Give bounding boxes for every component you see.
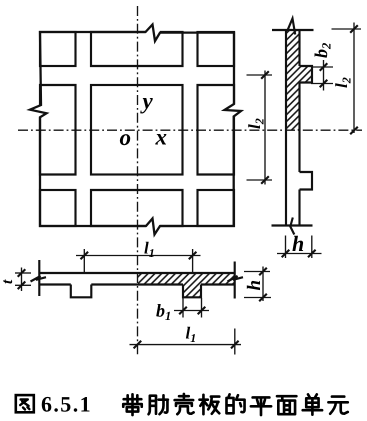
dimension l1 top of bottom section [76, 249, 201, 273]
wire horizontal centerline [18, 129, 362, 131]
break right end [228, 276, 244, 282]
dimension t left [15, 268, 31, 292]
glyph 单 [303, 394, 322, 414]
svg-text:y: y [140, 89, 154, 114]
panel MR [198, 85, 235, 175]
rib notch left (bottom section) [71, 285, 92, 298]
dimension b2 [311, 60, 333, 91]
break top of right section [287, 19, 295, 35]
section right strip left edge [285, 30, 287, 226]
panel TL [40, 32, 76, 66]
section right top edge [272, 29, 314, 31]
dimension h right of bottom section [244, 267, 271, 302]
glyph 带 [123, 394, 141, 415]
glyph 面 [277, 396, 296, 414]
glyph 平 [251, 397, 271, 415]
svg-text:h: h [244, 280, 265, 291]
bottom section top edge [39, 272, 234, 274]
wire vertical centerline [137, 6, 139, 355]
rib notch upper [300, 66, 313, 83]
glyph 的 [227, 394, 245, 413]
dimension l1 bottom [130, 329, 242, 355]
bottom section left end line [38, 260, 40, 296]
dimension h below right section [277, 236, 322, 259]
bottom section bottom edge segments [39, 283, 234, 285]
dimension l2 plan right [247, 71, 273, 185]
panel BL [40, 190, 76, 226]
panel ML [40, 85, 76, 175]
plan outer border with break symbols [30, 25, 241, 235]
bottom section right end line [234, 262, 236, 299]
panel TR [198, 32, 235, 66]
section right strip right edge segments [298, 30, 300, 226]
section right bottom edge [272, 224, 313, 226]
svg-text:o: o [120, 125, 132, 150]
break bottom of right section [290, 218, 294, 235]
panel center [91, 85, 183, 175]
svg-text:6.5.1: 6.5.1 [41, 392, 92, 417]
panel BM [91, 190, 183, 226]
glyph 图 [16, 395, 34, 412]
bottom section shell strip hatched [138, 273, 235, 297]
caption [16, 394, 348, 415]
panel BR [198, 190, 235, 226]
panel TM [91, 32, 183, 66]
glyph 壳 [175, 394, 194, 414]
rib notch right (bottom section) [183, 285, 201, 298]
svg-text:h: h [292, 231, 304, 256]
svg-text:t: t [0, 279, 16, 284]
rib notch lower [300, 172, 313, 190]
break left end [31, 276, 47, 282]
dimension l2 right section [332, 23, 362, 134]
glyph 元 [328, 397, 347, 414]
glyph 肋 [149, 395, 168, 414]
section right: hatched shell strip [286, 30, 312, 130]
dimension b1 [174, 298, 209, 318]
glyph 板 [199, 395, 219, 414]
svg-text:x: x [155, 125, 168, 150]
